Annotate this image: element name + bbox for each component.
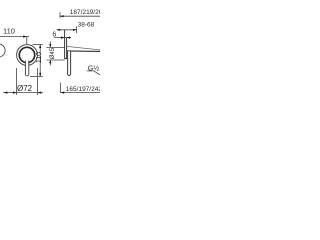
handle escutcheon outer circle Ø72 (front view)	[17, 45, 38, 66]
wall line (side view)	[64, 30, 66, 59]
dimension Ø72: right extension line	[37, 68, 39, 95]
svg-text:165/197/242: 165/197/242	[66, 86, 100, 93]
bottom dimension 165/197/242: left arrow	[61, 92, 65, 94]
escutcheon plate top edge (side view)	[65, 37, 67, 39]
svg-text:6: 6	[52, 32, 56, 39]
dimension Ø72: right arrow (outside)	[38, 92, 42, 94]
vertical dimension 110: bottom arrow	[39, 73, 41, 77]
dimension Ø72: dim line	[3, 92, 43, 94]
spout angle label underline	[87, 70, 94, 72]
bottom dimension 165/197/242: extension line	[60, 83, 62, 93]
top dimension 187/219/264: left arrow	[60, 15, 64, 17]
dimension Ø45: bottom extension line to wall	[46, 59, 64, 61]
vertical dimension 110: bottom extension line	[30, 76, 43, 78]
dimension 6: right line with arrow	[67, 37, 71, 39]
svg-text:110: 110	[36, 52, 43, 63]
svg-text:Ø45: Ø45	[50, 47, 56, 59]
dimension Ø45: lower line with up arrow	[49, 60, 51, 66]
dimension Ø72: left arrow (outside)	[13, 92, 17, 94]
lever handle hanging down (side view)	[68, 51, 71, 75]
dimension 38-68: right extension tick	[76, 26, 78, 33]
cut-off dimension arrow at left edge	[4, 92, 8, 94]
top dimension 187/219/264: dim line	[60, 15, 100, 17]
vertical dimension 110: top extension line	[33, 44, 43, 46]
vertical dimension 110: dim line	[39, 45, 41, 77]
dimension 38-68: right arrow	[73, 29, 77, 31]
spout bottom edge (side view)	[67, 50, 100, 53]
spout top edge sloping 5 deg (side view)	[67, 46, 100, 50]
svg-text:187/219/264: 187/219/264	[70, 9, 100, 16]
vertical dimension 110: top arrow	[39, 45, 41, 49]
spout angle label leader line	[94, 71, 100, 75]
escutcheon plate bottom edge (side view)	[65, 58, 68, 60]
svg-text:110: 110	[3, 27, 15, 36]
svg-text:38-68: 38-68	[78, 22, 95, 29]
dimension Ø72: left extension line	[16, 68, 18, 95]
background	[0, 0, 100, 100]
dimension 38-68: dim line	[57, 29, 77, 31]
dimension 38-68: left arrow	[57, 29, 61, 31]
spout outlet circle (front view, cut at left edge)	[0, 44, 5, 57]
dimension 110 horizontal: dim line	[0, 36, 29, 38]
escutcheon plate front face (side view)	[66, 38, 68, 59]
dimension Ø45: upper line with down arrow	[49, 41, 51, 47]
dimension 6 (plate thickness): left line with arrow	[54, 37, 64, 39]
handle sleeve inner circle (front view)	[19, 47, 34, 62]
dimension Ø45: top extension line to wall	[46, 46, 64, 48]
svg-text:Ø72: Ø72	[17, 84, 33, 93]
dimension 110 horizontal: extension line down to escutcheon	[26, 37, 28, 45]
lever handle stem (front view)	[25, 61, 28, 76]
dimension 110 horizontal: right arrow	[23, 36, 27, 38]
top dimension 187/219/264: extension line	[59, 12, 61, 18]
bottom dimension 165/197/242: dim line	[61, 92, 100, 94]
